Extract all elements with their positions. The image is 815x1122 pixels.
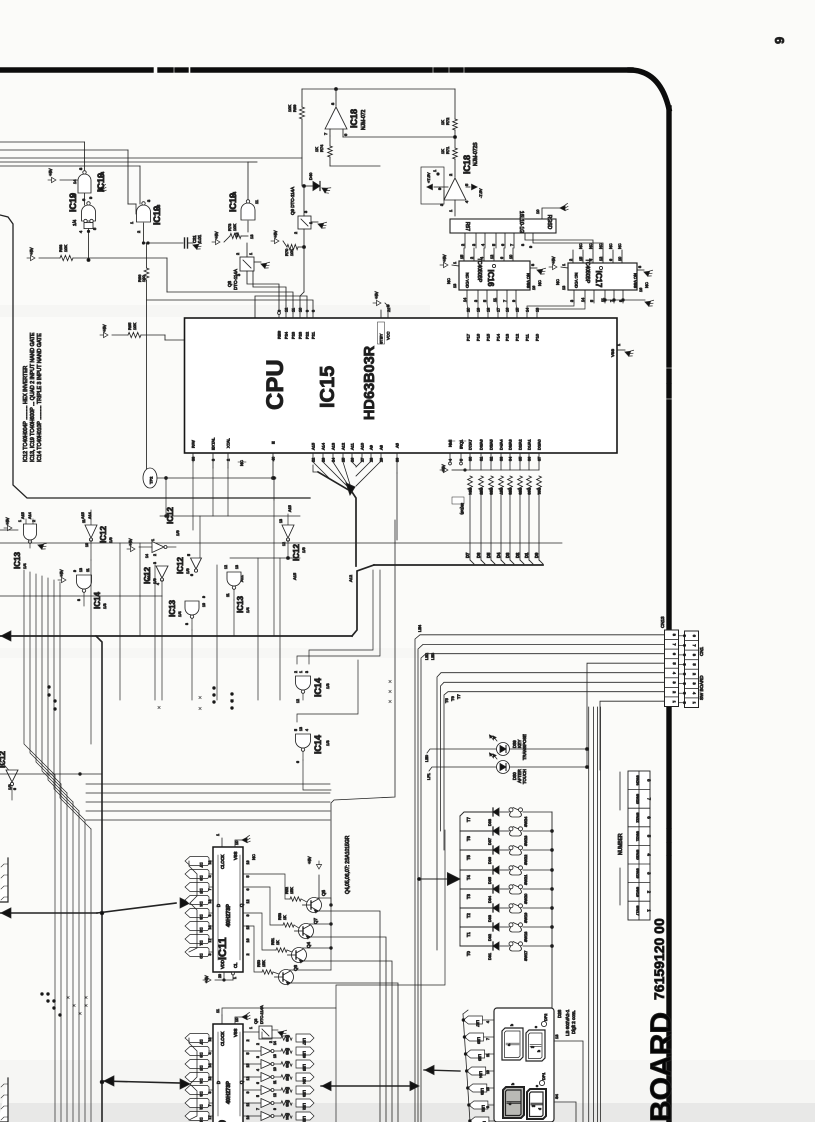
transistors Q5 Q7 Q4 Q6 with base resistors: [243, 874, 290, 899]
svg-text:A15: A15: [288, 505, 292, 512]
svg-text:5: 5: [246, 1053, 250, 1055]
svg-text:NC: NC: [618, 243, 622, 249]
svg-text:D28: D28: [557, 1009, 562, 1018]
wire bundle left vertical: [24, 570, 55, 775]
svg-text:+5V: +5V: [214, 231, 219, 239]
svg-text:10K: 10K: [63, 245, 68, 252]
svg-text:1: 1: [216, 834, 220, 836]
svg-text:P11: P11: [525, 333, 530, 341]
transistor Q8 DTC-114A: [240, 257, 254, 271]
svg-text:22: 22: [312, 458, 316, 462]
svg-text:SW24: SW24: [636, 775, 640, 785]
wire RGSD to IC16/IC17 pins: [464, 233, 466, 248]
svg-text:16: 16: [532, 286, 536, 290]
svg-text:6: 6: [190, 574, 194, 576]
wire data bus heavy line: [374, 564, 543, 566]
svg-text:5: 5: [492, 244, 496, 246]
svg-text:×: ×: [388, 689, 392, 696]
svg-text:35: 35: [519, 457, 523, 461]
svg-text:2: 2: [569, 259, 573, 261]
svg-text:1: 1: [692, 702, 696, 704]
svg-text:T2: T2: [466, 912, 471, 918]
svg-text:5: 5: [294, 729, 298, 731]
op-amp IC18 NJM-072: [335, 89, 337, 106]
svg-text:R48: R48: [285, 1048, 289, 1055]
svg-text:6: 6: [296, 761, 300, 763]
svg-text:IC15: IC15: [317, 366, 339, 408]
svg-text:NC VDD: NC VDD: [465, 273, 470, 288]
op-amp IC18 NJM-072S: [444, 178, 466, 200]
svg-text:1: 1: [672, 701, 676, 703]
svg-text:LB 602VA2-1: LB 602VA2-1: [565, 1009, 570, 1036]
svg-text:P17: P17: [466, 333, 471, 341]
svg-text:10: 10: [618, 257, 622, 261]
resistor R74 1K: [328, 146, 333, 157]
IC9 clock/vss: [221, 1015, 223, 1024]
decimal point DP1: [539, 1080, 544, 1085]
decimal point DP2: [541, 1021, 546, 1026]
svg-text:1/8: 1/8: [156, 204, 161, 211]
resistor R53 1K: [283, 923, 294, 927]
svg-text:1: 1: [299, 671, 303, 673]
svg-text:NC: NC: [589, 243, 593, 249]
wire thin long A line: [0, 542, 562, 544]
svg-text:2: 2: [246, 1040, 250, 1042]
svg-text:D37: D37: [488, 838, 492, 845]
wire riser x319: [318, 875, 320, 905]
svg-text:12: 12: [282, 542, 286, 546]
svg-text:Q4,05,06,07: 2SA1015GR: Q4,05,06,07: 2SA1015GR: [345, 835, 351, 894]
svg-text:1K: 1K: [314, 147, 319, 152]
svg-text:b: b: [511, 1083, 515, 1085]
svg-text:NC VSS: NC VSS: [633, 273, 638, 288]
svg-text:+5V: +5V: [273, 230, 278, 238]
svg-text:P22: P22: [305, 331, 310, 339]
svg-text:D33: D33: [488, 915, 492, 922]
seven segment digit lower right (bold): [527, 1089, 546, 1119]
svg-text:1: 1: [18, 520, 22, 522]
inverter IC10 1/6 (3/13): [243, 1063, 261, 1065]
resistor R48: [281, 1049, 292, 1053]
svg-text:+5V: +5V: [48, 168, 53, 176]
connector CN1: [685, 631, 699, 708]
svg-text:1/6: 1/6: [185, 568, 190, 574]
wire bus arrows IC9: [103, 1081, 181, 1083]
svg-text:9: 9: [202, 596, 206, 598]
svg-text:6: 6: [692, 635, 696, 637]
+5V pullup rail: [440, 467, 448, 472]
logic gate IC19 1/4 (pins 8,14,10,9): [84, 193, 86, 199]
svg-text:IC12: IC12: [99, 526, 108, 543]
svg-text:D5: D5: [199, 1065, 204, 1071]
svg-text:LE0: LE0: [424, 754, 429, 762]
svg-text:2: 2: [236, 253, 240, 255]
wire top op-amp net: [302, 88, 455, 90]
svg-text:2: 2: [692, 673, 696, 675]
svg-text:VSS: VSS: [233, 1028, 238, 1037]
logic gate IC12 1/6 inverter (3/4): [156, 566, 168, 578]
svg-text:TRANSPOSE: TRANSPOSE: [522, 734, 527, 760]
svg-text:13: 13: [562, 286, 566, 290]
svg-text:7: 7: [692, 644, 696, 646]
svg-text:LE4: LE4: [302, 1077, 306, 1084]
svg-text:8: 8: [185, 623, 189, 625]
logic gate IC12 1/6 inverter small: [191, 558, 202, 569]
svg-text:Q5: Q5: [321, 889, 326, 896]
svg-text:D4: D4: [496, 552, 501, 558]
svg-text:7: 7: [486, 1038, 490, 1040]
svg-text:2: 2: [246, 954, 250, 956]
svg-text:1/6: 1/6: [175, 530, 180, 536]
resistor R69 10K: [300, 107, 305, 119]
resistor R65 10K: [100, 332, 108, 337]
svg-text:13: 13: [554, 1034, 559, 1039]
svg-text:13: 13: [279, 519, 283, 523]
svg-text:7: 7: [208, 889, 212, 891]
svg-text:LF1: LF1: [426, 772, 431, 780]
svg-text:D5: D5: [199, 888, 204, 894]
display pin tag LE1: [470, 1117, 489, 1122]
svg-text:15: 15: [579, 257, 583, 261]
switch number table: [619, 772, 621, 810]
svg-text:6: 6: [672, 653, 676, 655]
svg-text:1: 1: [562, 264, 566, 266]
inverter IC10 1/6 (2/14): [243, 1050, 261, 1052]
svg-text:b: b: [510, 1024, 514, 1026]
svg-text:5: 5: [590, 300, 594, 302]
switch row T7 D38 SW24: [460, 812, 492, 816]
svg-text:P16: P16: [476, 333, 481, 341]
svg-text:36: 36: [528, 457, 532, 461]
svg-text:12: 12: [490, 255, 494, 259]
svg-text:A13: A13: [331, 442, 336, 450]
svg-text:D3: D3: [199, 914, 204, 920]
wire bus1 to left edge: [0, 635, 352, 637]
svg-text:9: 9: [512, 300, 516, 302]
svg-text:NC: NC: [609, 243, 613, 249]
svg-text:1/6: 1/6: [301, 547, 306, 553]
svg-text:LE7: LE7: [475, 1020, 479, 1027]
svg-text:1: 1: [453, 262, 457, 264]
wire assorted verticals below gates: [90, 560, 92, 744]
svg-text:R/W: R/W: [191, 440, 196, 448]
capacitor C31 0.01: [144, 242, 184, 244]
switch matrix T0-T7 rows: [459, 816, 461, 946]
svg-text:19: 19: [477, 308, 481, 312]
svg-text:4: 4: [449, 459, 453, 461]
display pin tag LE3: [468, 1084, 487, 1092]
svg-text:XTAL: XTAL: [226, 438, 231, 448]
svg-text:R45: R45: [285, 1074, 289, 1081]
svg-text:IC13: IC13: [168, 600, 177, 617]
svg-text:b: b: [537, 1050, 541, 1052]
logic gate IC19 1/4 (pins 11,12,13): [241, 203, 255, 220]
svg-text:6: 6: [609, 259, 613, 261]
svg-text:14: 14: [145, 554, 149, 558]
svg-text:38: 38: [192, 457, 196, 461]
svg-text:IC13: IC13: [13, 552, 22, 569]
svg-text:+5V: +5V: [128, 538, 133, 546]
svg-text:D1: D1: [199, 1117, 204, 1122]
svg-text:34: 34: [509, 457, 513, 461]
svg-text:6: 6: [13, 788, 17, 790]
svg-text:LE2: LE2: [481, 1105, 485, 1112]
svg-text:D0: D0: [534, 552, 539, 558]
svg-text:3: 3: [256, 1056, 260, 1058]
svg-text:1K: 1K: [440, 120, 445, 125]
svg-text:HD63B03R: HD63B03R: [362, 345, 378, 420]
svg-text:+5V: +5V: [441, 464, 446, 472]
svg-text:1/4: 1/4: [22, 563, 27, 569]
svg-text:2: 2: [32, 520, 36, 522]
svg-text:SW19: SW19: [636, 868, 640, 878]
svg-text:16: 16: [246, 939, 250, 943]
resistor R51 1K: [276, 948, 287, 952]
IC17 TC4050BP: [572, 250, 574, 263]
resistor R42: [281, 1088, 292, 1092]
svg-text:A15: A15: [81, 512, 85, 519]
transistor Q6: [279, 970, 294, 985]
svg-text:D31: D31: [488, 953, 492, 960]
svg-text:SW23: SW23: [636, 794, 640, 804]
svg-text:g: g: [531, 1105, 535, 1107]
svg-text:10K: 10K: [287, 105, 292, 112]
svg-text:A15: A15: [311, 442, 316, 450]
svg-text:3: 3: [672, 682, 676, 684]
IC11 D input fan: [189, 861, 197, 903]
svg-text:D4: D4: [199, 1078, 204, 1084]
svg-text:Q7: Q7: [313, 917, 318, 924]
svg-text:9: 9: [273, 1108, 277, 1110]
svg-text:5: 5: [256, 1095, 260, 1097]
svg-text:LE4: LE4: [417, 624, 422, 632]
wire Q9 net vertical: [303, 186, 305, 216]
svg-text:R69: R69: [292, 104, 297, 112]
svg-text:IC16: IC16: [486, 270, 495, 287]
svg-text:VCC: VCC: [386, 331, 391, 340]
svg-text:D3: D3: [199, 1091, 204, 1097]
seven segment digit lower left (bold): [503, 1087, 524, 1118]
svg-text:D: D: [216, 904, 221, 907]
switch row T4 D35 SW21: [460, 869, 492, 871]
switch row T1 D32 SW18: [460, 926, 492, 928]
resistor R50 15K: [262, 970, 273, 974]
svg-text:12: 12: [273, 1093, 277, 1097]
svg-text:TP2: TP2: [149, 476, 154, 484]
svg-text:15: 15: [516, 308, 520, 312]
svg-text:R74: R74: [319, 144, 324, 152]
svg-text:5: 5: [246, 876, 250, 878]
svg-text:SW21: SW21: [636, 831, 640, 841]
svg-text:26: 26: [351, 458, 355, 462]
svg-text:SW BOARD: SW BOARD: [699, 675, 704, 700]
svg-text:1/4: 1/4: [100, 171, 105, 178]
svg-text:LE4: LE4: [479, 1071, 483, 1078]
svg-text:VDD: VDD: [220, 960, 225, 969]
svg-text:3: 3: [472, 244, 476, 246]
svg-text:NC: NC: [251, 854, 256, 860]
svg-text:4: 4: [672, 672, 676, 674]
svg-text:LE5: LE5: [478, 1054, 482, 1061]
svg-text:NC: NC: [555, 279, 560, 285]
svg-text:6: 6: [256, 1082, 260, 1084]
wire matrix feed arrow: [419, 878, 449, 880]
svg-text:R46: R46: [285, 1061, 289, 1068]
svg-text:TOUCH: TOUCH: [522, 769, 527, 784]
svg-text:RES: RES: [277, 330, 282, 339]
svg-text:IC14: IC14: [313, 735, 323, 754]
svg-text:11: 11: [82, 519, 86, 523]
svg-text:D7: D7: [465, 552, 470, 558]
svg-text:D6: D6: [199, 1052, 204, 1058]
svg-text:STBY: STBY: [379, 333, 384, 344]
svg-text:SW22: SW22: [636, 812, 640, 822]
svg-text:4: 4: [305, 729, 309, 731]
wire CN1 column down: [588, 707, 590, 1122]
svg-text:13: 13: [273, 1054, 277, 1058]
wire staircase horizontals to IC area: [86, 783, 330, 785]
IC11 VDD CL pins: [223, 972, 225, 980]
svg-text:D5/A5: D5/A5: [490, 439, 494, 450]
svg-text:D2: D2: [515, 552, 520, 558]
svg-text:SW20: SW20: [524, 894, 528, 904]
svg-text:NC: NC: [644, 282, 649, 288]
svg-text:76159120 00: 76159120 00: [651, 918, 667, 1000]
display pin tag LE2: [469, 1101, 488, 1109]
svg-text:D40: D40: [308, 172, 313, 180]
svg-text:D0/A0: D0/A0: [538, 439, 542, 450]
svg-text:IC12: IC12: [292, 544, 301, 561]
svg-text:D34: D34: [488, 896, 492, 903]
resistor R45: [281, 1075, 292, 1079]
resistor R70 10K: [271, 238, 279, 243]
svg-text:NC VSS: NC VSS: [526, 273, 531, 288]
inverter IC10 1/6 (7/9): [243, 1115, 261, 1117]
svg-text:3: 3: [474, 300, 478, 302]
svg-text:NC: NC: [599, 243, 603, 249]
svg-text:IC18: IC18: [462, 155, 472, 174]
svg-text:D4: D4: [199, 901, 204, 907]
svg-text:T7: T7: [456, 694, 461, 699]
svg-text:LE6: LE6: [302, 1051, 306, 1058]
svg-text:IC12 TC40H004P .......... HEX: IC12 TC40H004P .......... HEX INVERTER: [23, 365, 29, 462]
svg-text:VSS: VSS: [610, 349, 615, 357]
svg-text:4: 4: [256, 1069, 260, 1071]
svg-text:+5V: +5V: [307, 856, 312, 864]
svg-text:D3: D3: [505, 552, 510, 558]
svg-text:A14: A14: [88, 512, 92, 519]
svg-text:4: 4: [208, 876, 212, 878]
svg-text:VSS: VSS: [233, 851, 238, 860]
svg-text:10K: 10K: [232, 224, 237, 231]
wire: [166, 258, 168, 292]
svg-text:T4: T4: [466, 874, 471, 880]
svg-text:TC4050BP: TC4050BP: [584, 259, 590, 284]
svg-text:g: g: [530, 1046, 534, 1048]
svg-text:NC: NC: [579, 243, 583, 249]
IC9 40H273P: [213, 1024, 243, 1122]
svg-text:5: 5: [692, 663, 696, 665]
svg-text:c: c: [535, 1085, 539, 1087]
svg-text:D6: D6: [199, 875, 204, 881]
svg-text:NUMBER: NUMBER: [618, 833, 624, 855]
svg-text:D35: D35: [488, 877, 492, 884]
svg-text:12: 12: [285, 308, 289, 312]
svg-text:T6: T6: [450, 696, 455, 701]
svg-text:24: 24: [332, 458, 336, 462]
svg-text:a: a: [508, 1103, 512, 1105]
svg-text:8: 8: [312, 310, 316, 312]
svg-text:D1: D1: [524, 552, 529, 558]
svg-text:P15: P15: [486, 333, 491, 341]
svg-text:DP2: DP2: [544, 1014, 548, 1021]
svg-text:IC17: IC17: [594, 271, 603, 288]
svg-text:T3: T3: [466, 893, 471, 899]
svg-text:A15: A15: [21, 512, 25, 519]
svg-text:14: 14: [581, 298, 585, 302]
svg-text:T6: T6: [466, 835, 471, 841]
wire op-amp2 output to RGSD pin1: [454, 200, 456, 216]
svg-text:SW17: SW17: [636, 905, 640, 915]
svg-text:A14: A14: [321, 442, 326, 450]
svg-text:P23: P23: [298, 331, 303, 339]
resistor R71 1K: [453, 148, 458, 159]
svg-text:CLOCK: CLOCK: [220, 854, 225, 869]
svg-text:1: 1: [249, 253, 253, 255]
svg-text:D6: D6: [476, 552, 481, 558]
svg-text:IC18: IC18: [349, 109, 359, 128]
svg-text:CL: CL: [233, 962, 238, 968]
display pin tag LE4: [467, 1067, 486, 1075]
svg-text:40H273P: 40H273P: [226, 1081, 232, 1104]
svg-text:19: 19: [246, 861, 250, 865]
transistor Q4: [292, 948, 307, 963]
svg-text:S4: S4: [554, 1093, 559, 1099]
svg-text:9: 9: [246, 1092, 250, 1094]
svg-text:1/4: 1/4: [177, 611, 182, 617]
LED D30 AFTER TOUCH: [429, 767, 496, 771]
svg-text:IRQ1: IRQ1: [459, 439, 464, 449]
svg-text:14: 14: [463, 298, 467, 302]
logic gate IC14 1/3 (5,13,4 / 6): [296, 734, 311, 748]
svg-text:D7: D7: [199, 1039, 204, 1045]
svg-text:A8: A8: [379, 444, 384, 450]
svg-text:1/6: 1/6: [7, 784, 12, 790]
wire T5/T6/T7 risers: [437, 673, 664, 950]
svg-text:LE2: LE2: [424, 652, 429, 660]
svg-text:+5V: +5V: [29, 247, 34, 255]
svg-text:NC: NC: [239, 460, 244, 466]
svg-text:10K: 10K: [132, 323, 137, 330]
container outline left: [0, 215, 310, 498]
svg-text:IC14: IC14: [313, 678, 323, 697]
wire transistor collectors down: [317, 911, 380, 1122]
svg-text:12: 12: [599, 257, 603, 261]
svg-text:1: 1: [249, 1027, 253, 1029]
svg-text:A11: A11: [350, 442, 355, 450]
CPU STBY/VCC pins: [380, 310, 382, 318]
border right thick line: [666, 108, 671, 365]
svg-text:9: 9: [73, 570, 77, 572]
svg-text:a: a: [507, 1044, 511, 1046]
svg-text:SW23: SW23: [524, 836, 528, 846]
svg-text:4: 4: [481, 244, 485, 246]
inverter IC10 1/6 (5/12): [243, 1102, 261, 1104]
svg-text:3: 3: [208, 954, 212, 956]
svg-text:R72: R72: [445, 117, 450, 125]
svg-text:14: 14: [273, 1041, 277, 1045]
svg-text:1/4: 1/4: [232, 191, 237, 198]
